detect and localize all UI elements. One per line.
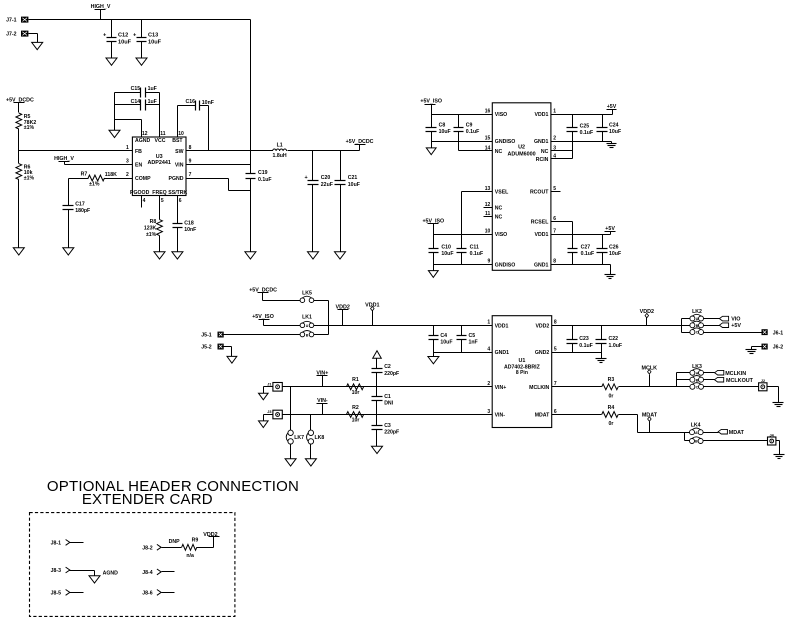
- svg-text:10uF: 10uF: [441, 251, 453, 257]
- svg-text:15: 15: [485, 136, 491, 142]
- svg-text:11: 11: [160, 131, 166, 137]
- svg-text:J3: J3: [267, 410, 271, 414]
- svg-text:11: 11: [485, 211, 491, 217]
- svg-text:7: 7: [553, 228, 556, 234]
- svg-text:VIN: VIN: [175, 162, 184, 168]
- svg-text:GND1: GND1: [495, 350, 510, 356]
- svg-text:A: A: [695, 431, 698, 435]
- svg-text:10uF: 10uF: [609, 129, 621, 135]
- svg-text:SS/TRK: SS/TRK: [168, 190, 187, 196]
- svg-text:COMP: COMP: [135, 176, 151, 182]
- svg-text:1nF: 1nF: [469, 340, 478, 346]
- svg-text:0r: 0r: [609, 393, 614, 399]
- svg-text:R1: R1: [352, 377, 359, 383]
- svg-text:GND2: GND2: [535, 350, 550, 356]
- svg-text:0.1uF: 0.1uF: [580, 130, 594, 136]
- svg-text:GND1: GND1: [534, 262, 549, 268]
- svg-text:R8: R8: [150, 219, 157, 225]
- svg-text:+5V_ISO: +5V_ISO: [252, 314, 274, 320]
- svg-text:C8: C8: [439, 122, 446, 128]
- svg-text:NC: NC: [495, 215, 503, 221]
- svg-text:ADP2441: ADP2441: [148, 160, 171, 166]
- svg-text:J5-2: J5-2: [201, 344, 211, 350]
- svg-text:C27: C27: [581, 244, 591, 250]
- svg-text:C1: C1: [384, 394, 391, 400]
- svg-text:12: 12: [142, 131, 148, 137]
- svg-text:L1: L1: [277, 143, 283, 149]
- svg-text:VCC: VCC: [155, 138, 166, 144]
- svg-text:0.1uF: 0.1uF: [579, 343, 593, 349]
- svg-text:RCIN: RCIN: [536, 157, 549, 163]
- svg-text:22uF: 22uF: [321, 182, 333, 188]
- svg-text:GND1: GND1: [534, 139, 549, 145]
- svg-text:U2: U2: [518, 145, 525, 151]
- svg-text:C5: C5: [469, 333, 476, 339]
- svg-text:A: A: [696, 317, 699, 321]
- svg-text:C9: C9: [466, 122, 473, 128]
- svg-text:DNP: DNP: [169, 539, 180, 545]
- svg-text:C23: C23: [579, 336, 589, 342]
- svg-text:J7-1: J7-1: [6, 18, 16, 24]
- svg-text:VDD2: VDD2: [535, 323, 549, 329]
- svg-text:7: 7: [189, 172, 192, 178]
- svg-text:GNDISO: GNDISO: [495, 262, 515, 268]
- svg-text:C26: C26: [609, 244, 619, 250]
- svg-text:R2: R2: [352, 405, 359, 411]
- svg-text:C15: C15: [131, 86, 141, 92]
- svg-text:LK5: LK5: [302, 291, 312, 297]
- svg-text:123K: 123K: [144, 225, 157, 231]
- svg-text:6: 6: [179, 198, 182, 204]
- svg-text:±1%: ±1%: [24, 125, 35, 131]
- svg-text:SW: SW: [175, 149, 183, 155]
- svg-text:A: A: [696, 371, 699, 375]
- svg-text:VDD1: VDD1: [535, 112, 549, 118]
- svg-text:5: 5: [161, 198, 164, 204]
- svg-text:MCLKIN: MCLKIN: [529, 385, 549, 391]
- svg-text:BST: BST: [172, 138, 183, 144]
- svg-text:180pF: 180pF: [75, 208, 90, 214]
- svg-text:0.1uF: 0.1uF: [258, 177, 272, 183]
- svg-text:PGOOD: PGOOD: [130, 190, 150, 196]
- svg-text:C25: C25: [580, 123, 590, 129]
- svg-text:FB: FB: [135, 149, 142, 155]
- svg-text:C14: C14: [131, 99, 141, 105]
- svg-text:1.0uF: 1.0uF: [609, 343, 623, 349]
- svg-text:VIN-: VIN-: [495, 413, 506, 419]
- svg-text:10r: 10r: [352, 390, 360, 396]
- svg-text:4: 4: [143, 198, 146, 204]
- svg-text:C10: C10: [441, 244, 451, 250]
- svg-text:10uF: 10uF: [348, 182, 360, 188]
- svg-text:C2: C2: [384, 364, 391, 370]
- svg-text:LK8: LK8: [315, 435, 325, 441]
- svg-text:NC: NC: [495, 206, 503, 212]
- svg-text:8 Pin: 8 Pin: [516, 370, 528, 376]
- svg-text:C4: C4: [440, 333, 447, 339]
- svg-text:10uF: 10uF: [439, 129, 451, 135]
- svg-text:MDAT: MDAT: [535, 413, 550, 419]
- svg-text:GNDISO: GNDISO: [495, 139, 515, 145]
- svg-text:MCLKIN: MCLKIN: [725, 371, 746, 377]
- svg-text:10uF: 10uF: [609, 251, 621, 257]
- svg-text:2: 2: [126, 172, 129, 178]
- svg-text:J5-1: J5-1: [201, 332, 211, 338]
- svg-text:3: 3: [126, 159, 129, 165]
- svg-text:C19: C19: [258, 170, 268, 176]
- svg-text:10uF: 10uF: [148, 39, 162, 45]
- svg-text:MCLKOUT: MCLKOUT: [726, 378, 754, 384]
- svg-text:C21: C21: [348, 175, 358, 181]
- svg-text:VDD1: VDD1: [495, 323, 509, 329]
- svg-text:C22: C22: [609, 336, 619, 342]
- svg-text:C12: C12: [118, 33, 128, 39]
- svg-text:C11: C11: [470, 244, 479, 250]
- svg-text:A: A: [306, 324, 309, 328]
- svg-text:VSEL: VSEL: [495, 189, 509, 195]
- svg-text:B: B: [695, 440, 698, 444]
- svg-text:VIO: VIO: [731, 317, 740, 323]
- svg-text:J6-2: J6-2: [773, 345, 783, 351]
- svg-text:8: 8: [553, 259, 556, 265]
- svg-text:RCOUT: RCOUT: [530, 189, 549, 195]
- svg-text:J8-5: J8-5: [51, 591, 61, 597]
- svg-text:VISO: VISO: [495, 112, 507, 118]
- svg-text:J1: J1: [267, 382, 271, 386]
- svg-text:C18: C18: [184, 220, 194, 226]
- svg-text:C17: C17: [75, 201, 85, 207]
- svg-text:R4: R4: [608, 405, 615, 411]
- svg-text:1uF: 1uF: [148, 99, 157, 105]
- svg-text:9: 9: [488, 259, 491, 265]
- svg-text:J8-2: J8-2: [142, 545, 152, 551]
- svg-text:6: 6: [553, 216, 556, 222]
- svg-text:+5V: +5V: [731, 323, 741, 329]
- svg-text:1.8uH: 1.8uH: [273, 153, 287, 159]
- svg-text:B: B: [696, 324, 699, 328]
- svg-text:10: 10: [178, 131, 184, 137]
- svg-text:ADUM6000: ADUM6000: [508, 152, 536, 158]
- svg-text:10r: 10r: [352, 418, 360, 424]
- svg-text:1: 1: [487, 320, 490, 326]
- svg-text:10: 10: [485, 228, 491, 234]
- svg-text:B: B: [696, 378, 699, 382]
- svg-text:9: 9: [189, 159, 192, 165]
- svg-text:+: +: [304, 175, 307, 181]
- svg-text:2: 2: [553, 136, 556, 142]
- svg-text:+5V_ISO: +5V_ISO: [420, 99, 442, 105]
- svg-text:0r: 0r: [609, 421, 614, 427]
- svg-text:J6-1: J6-1: [773, 330, 783, 336]
- svg-text:MDAT: MDAT: [729, 430, 745, 436]
- svg-text:J7-2: J7-2: [6, 32, 16, 38]
- svg-text:13: 13: [485, 186, 491, 192]
- svg-text:8: 8: [554, 320, 557, 326]
- svg-text:±1%: ±1%: [146, 232, 157, 238]
- svg-text:PGND: PGND: [169, 176, 184, 182]
- svg-text:1: 1: [126, 145, 129, 151]
- svg-text:5: 5: [553, 186, 556, 192]
- svg-text:+: +: [103, 32, 106, 38]
- svg-text:DNI: DNI: [384, 401, 393, 407]
- svg-text:C: C: [696, 331, 699, 335]
- svg-text:VIN+: VIN+: [495, 385, 507, 391]
- svg-text:R7: R7: [81, 172, 88, 178]
- svg-text:VISO: VISO: [495, 232, 507, 238]
- svg-text:C3: C3: [384, 423, 391, 429]
- svg-text:C13: C13: [148, 33, 158, 39]
- svg-text:EN: EN: [135, 162, 142, 168]
- svg-text:0.1uF: 0.1uF: [470, 251, 484, 257]
- svg-text:J8-6: J8-6: [142, 591, 152, 597]
- svg-text:R9: R9: [192, 538, 199, 544]
- svg-text:C24: C24: [609, 122, 619, 128]
- svg-text:HIGH_V: HIGH_V: [54, 156, 74, 162]
- svg-text:10uF: 10uF: [440, 340, 452, 346]
- svg-text:U3: U3: [156, 154, 163, 160]
- svg-text:C20: C20: [321, 175, 331, 181]
- svg-text:0.1uF: 0.1uF: [466, 129, 480, 135]
- svg-text:n/a: n/a: [186, 553, 194, 559]
- svg-text:AGND: AGND: [135, 138, 151, 144]
- svg-text:0.1uF: 0.1uF: [581, 251, 595, 257]
- svg-text:10nF: 10nF: [202, 100, 214, 106]
- svg-text:B: B: [306, 333, 309, 337]
- svg-text:16: 16: [485, 108, 491, 114]
- svg-text:+: +: [133, 32, 136, 38]
- svg-text:J8-1: J8-1: [51, 540, 61, 546]
- svg-text:J8-4: J8-4: [142, 570, 152, 576]
- svg-text:1uF: 1uF: [148, 86, 157, 92]
- svg-text:±1%: ±1%: [89, 181, 100, 187]
- svg-text:220pF: 220pF: [384, 371, 399, 377]
- svg-text:U1: U1: [518, 358, 525, 364]
- svg-text:J8-3: J8-3: [51, 568, 61, 574]
- svg-text:FREQ: FREQ: [152, 190, 166, 196]
- svg-text:EXTENDER CARD: EXTENDER CARD: [82, 491, 213, 508]
- svg-text:10nF: 10nF: [184, 227, 196, 233]
- svg-text:118K: 118K: [105, 172, 117, 178]
- svg-text:LK1: LK1: [302, 315, 312, 321]
- svg-text:R3: R3: [608, 377, 615, 383]
- svg-text:10uF: 10uF: [118, 39, 132, 45]
- svg-text:±1%: ±1%: [24, 175, 35, 181]
- svg-text:NC: NC: [541, 149, 549, 155]
- svg-text:220pF: 220pF: [384, 430, 399, 436]
- svg-text:LK7: LK7: [294, 435, 304, 441]
- svg-text:5: 5: [554, 347, 557, 353]
- svg-text:C: C: [696, 385, 699, 389]
- svg-text:1: 1: [553, 108, 556, 114]
- svg-text:NC: NC: [495, 149, 503, 155]
- svg-text:4: 4: [487, 347, 490, 353]
- svg-text:AGND: AGND: [103, 570, 119, 576]
- svg-text:C16: C16: [185, 99, 195, 105]
- svg-text:VDD1: VDD1: [535, 232, 549, 238]
- svg-text:RCSEL: RCSEL: [531, 219, 549, 225]
